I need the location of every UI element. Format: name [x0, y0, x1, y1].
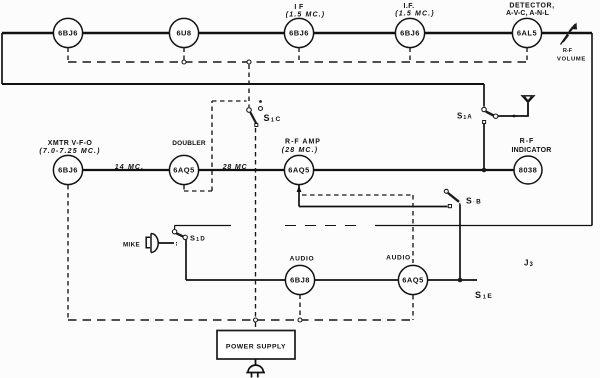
wire S1B to audio junction [459, 205, 461, 281]
contact dot on antenna lead [513, 115, 516, 118]
wire volume return left segment [175, 226, 231, 230]
svg-text:J3: J3 [524, 259, 534, 269]
svg-text:6AL5: 6AL5 [517, 29, 537, 38]
junction dot A at RF indicator line [482, 168, 487, 173]
tube V6 transmitter VFO 6BJ6 [53, 155, 82, 184]
junction dot B at audio output line [458, 278, 463, 283]
svg-text:14 MC.: 14 MC. [115, 164, 144, 171]
wire stub tube V1 to AVC bus [67, 48, 69, 63]
svg-text:28 MC: 28 MC [222, 164, 248, 171]
wire left edge vertical [1, 33, 3, 84]
svg-text:6BJ6: 6BJ6 [58, 166, 78, 175]
svg-text:S1C: S1C [264, 113, 282, 124]
svg-text:S1A: S1A [457, 112, 473, 122]
net power bus dashed y=320 [68, 319, 413, 321]
wire S1A lower to junction A [483, 124, 485, 171]
svg-text:AUDIO: AUDIO [386, 255, 411, 262]
wire S1B feed y=206.5 [299, 206, 448, 208]
wire stub tube V3 to AVC bus [298, 48, 300, 63]
svg-text:DETECTOR,: DETECTOR, [509, 3, 554, 10]
tube V7 doubler 6AQ5 [169, 155, 198, 184]
svg-text:(7.0-7.25 MC.): (7.0-7.25 MC.) [39, 148, 100, 155]
tube V3 first IF 6BJ6 [284, 18, 313, 47]
antenna symbol [522, 96, 534, 116]
wire top signal bus y=33 [2, 32, 592, 34]
svg-text:6BJ6: 6BJ6 [289, 29, 309, 38]
wire stub modulator V11 to power bus [412, 295, 414, 320]
wire RF amp dashed path to modulator [302, 195, 413, 263]
svg-text:S1E: S1E [475, 290, 494, 301]
svg-text:(28 MC.): (28 MC.) [282, 147, 318, 154]
switch S1D [172, 230, 187, 246]
wire dashed S1C to power bus [255, 128, 257, 318]
svg-text:S1D: S1D [190, 234, 206, 244]
svg-text:6AQ5: 6AQ5 [402, 276, 423, 285]
wire stub audio V10 to power bus [299, 295, 301, 318]
wire power supply to plug [255, 359, 257, 366]
wire doubler grid dashed path [184, 101, 247, 191]
svg-text:6U8: 6U8 [176, 29, 191, 38]
wire dashed VFO to power bus [67, 185, 69, 320]
wire volume return dashed middle segment [285, 225, 362, 227]
wire S1A upper feed [483, 84, 485, 107]
junction node on AVC bus below V2 [182, 60, 186, 64]
indicator lamp 8038 [514, 156, 542, 184]
wire RF amp cathode drop [298, 185, 300, 207]
tube V8 RF amp 28 MC 6AQ5 [284, 155, 313, 184]
svg-text:AUDIO: AUDIO [290, 256, 315, 263]
potentiometer R-F VOLUME arrow [561, 25, 576, 45]
wire stub power bus to power supply [255, 323, 257, 331]
wire volume return right segment [375, 225, 592, 227]
svg-text:I F: I F [294, 4, 304, 11]
svg-text:INDICATOR: INDICATOR [511, 147, 551, 154]
svg-text:A-V-C, A-N-L: A-V-C, A-N-L [506, 10, 550, 17]
wire S1D drop to audio line [185, 240, 187, 281]
tube V10 first audio 6BJ8 [285, 265, 314, 294]
wire audio line y=280 [186, 279, 477, 281]
tube V11 audio output modulator 6AQ5 [398, 265, 427, 294]
AC plug symbol [246, 365, 265, 377]
svg-text:6BJ6: 6BJ6 [400, 29, 420, 38]
svg-text:VOLUME: VOLUME [557, 57, 586, 63]
wire transmitter chain y=170 [54, 169, 514, 171]
svg-text:6AQ5: 6AQ5 [173, 166, 194, 175]
junction node on power bus below V10 [298, 318, 302, 322]
wire stub tube V5 to AVC bus [526, 48, 528, 63]
wire right edge vertical [591, 33, 593, 226]
tube V4 second IF 6BJ6 [395, 18, 424, 47]
wire stub tube V2 to AVC bus [183, 48, 185, 61]
svg-text:6BJ6: 6BJ6 [58, 29, 78, 38]
svg-text:I.F.: I.F. [404, 3, 415, 10]
svg-text:S·B: S·B [466, 196, 482, 206]
svg-text:XMTR V-F-O: XMTR V-F-O [48, 140, 93, 147]
svg-text:R-F: R-F [563, 48, 573, 54]
switch S1C [247, 100, 263, 126]
svg-text:POWER SUPPLY: POWER SUPPLY [226, 344, 286, 351]
wire mike lead [158, 242, 175, 244]
svg-text:6BJ8: 6BJ8 [290, 276, 310, 285]
wire stub tube V4 to AVC bus [409, 48, 411, 63]
switch S1B [444, 189, 460, 207]
svg-text:R-F: R-F [520, 138, 535, 145]
wire receiver input line y=84 [2, 83, 484, 85]
microphone MIKE [146, 234, 158, 253]
svg-text:R-F AMP: R-F AMP [285, 139, 321, 146]
tube V1 RF amplifier 6BJ6 [53, 18, 82, 47]
svg-text:6AQ5: 6AQ5 [288, 166, 309, 175]
net AVC bus dashed y=62 [68, 61, 527, 63]
power supply box [217, 331, 295, 360]
svg-text:MIKE: MIKE [123, 242, 140, 249]
svg-text:DOUBLER: DOUBLER [172, 140, 206, 147]
tube V2 mixer-oscillator 6U8 [169, 18, 198, 47]
svg-text:(1.5 MC.): (1.5 MC.) [395, 11, 435, 18]
arrowhead at RF amp cathode [297, 186, 302, 193]
svg-text:8038: 8038 [519, 166, 538, 175]
svg-text:(1.5 MC.): (1.5 MC.) [286, 12, 326, 19]
wire antenna lead [498, 103, 528, 116]
junction node on AVC bus at S1C drop [247, 60, 251, 64]
tube V5 detector AVC ANL 6AL5 [512, 18, 541, 47]
wire dashed drop to S1C [248, 65, 250, 108]
switch S1A [482, 107, 498, 123]
junction node on power bus at supply drop [254, 318, 258, 322]
